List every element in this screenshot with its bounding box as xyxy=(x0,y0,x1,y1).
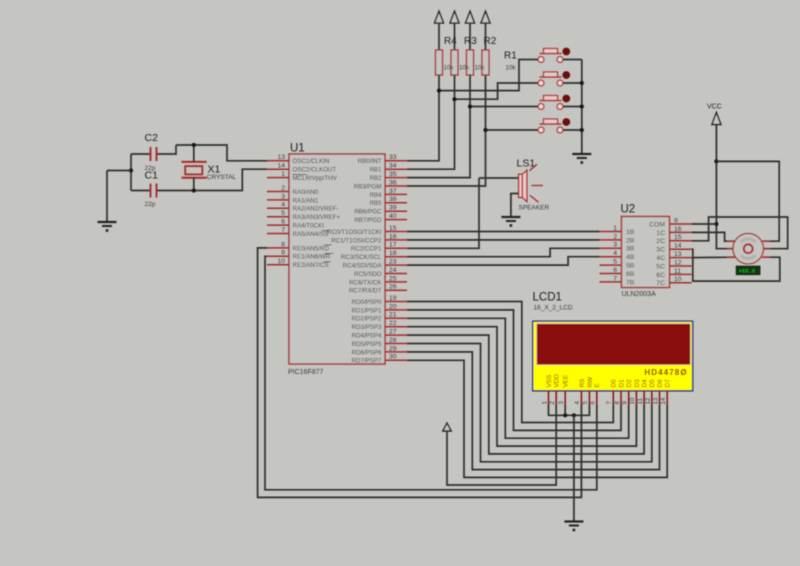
LCD pin numbers xyxy=(541,397,667,404)
svg-text:6C: 6C xyxy=(656,272,665,279)
wire R1 column to RB3 xyxy=(407,75,486,186)
svg-text:VSS: VSS xyxy=(546,375,553,388)
wire VEE to bus xyxy=(564,405,566,416)
svg-text:5: 5 xyxy=(582,401,589,405)
LCD1 screen xyxy=(537,324,691,365)
ground speaker xyxy=(501,217,520,227)
svg-text:ULN2003A: ULN2003A xyxy=(622,291,657,298)
svg-text:RB2: RB2 xyxy=(369,175,382,182)
svg-text:13: 13 xyxy=(674,251,682,258)
svg-text:18: 18 xyxy=(389,250,397,257)
wire RD0 to LCD D0 xyxy=(407,302,613,423)
svg-text:38: 38 xyxy=(389,196,397,203)
junction R4 tap xyxy=(437,89,441,93)
svg-text:14: 14 xyxy=(277,163,285,170)
svg-text:30: 30 xyxy=(389,354,397,361)
push button SW2 xyxy=(538,72,570,86)
wire power to R3 xyxy=(454,23,456,50)
svg-text:LS1: LS1 xyxy=(517,158,536,170)
push button SW4 xyxy=(538,119,570,133)
svg-text:4B: 4B xyxy=(626,254,635,261)
svg-text:6B: 6B xyxy=(626,271,635,278)
svg-text:14: 14 xyxy=(674,243,682,250)
svg-text:16: 16 xyxy=(389,233,397,240)
svg-text:4: 4 xyxy=(613,250,617,257)
svg-text:D1: D1 xyxy=(618,379,625,388)
svg-text:RC0/T1OSO/T1CKI: RC0/T1OSO/T1CKI xyxy=(327,229,382,236)
wire R2 column to RB2 xyxy=(407,75,470,178)
svg-text:10k: 10k xyxy=(475,65,486,72)
wire crystal bottom xyxy=(193,178,195,191)
U2 right pin numbers and names xyxy=(649,217,682,287)
svg-text:5: 5 xyxy=(281,210,285,217)
wire left rail xyxy=(130,154,132,191)
wire C2 row xyxy=(131,153,151,155)
wire RE1 to LCD E xyxy=(265,256,597,490)
svg-text:RD3/PSP3: RD3/PSP3 xyxy=(352,324,382,331)
speaker LS1 xyxy=(519,164,543,202)
wire tap to button 3 xyxy=(470,106,538,108)
svg-text:RC7/RX/DT: RC7/RX/DT xyxy=(349,288,382,295)
svg-text:39: 39 xyxy=(389,205,397,212)
svg-text:U1: U1 xyxy=(290,143,305,155)
wire RC3 to 3B xyxy=(407,248,600,256)
wire RE0 to LCD RS xyxy=(258,248,582,498)
svg-text:7: 7 xyxy=(613,275,617,282)
junction rail b3 xyxy=(580,104,584,108)
LCD pin stubs xyxy=(549,390,668,404)
svg-text:15: 15 xyxy=(389,225,397,232)
svg-text:RD7/PSP7: RD7/PSP7 xyxy=(352,358,382,365)
junction crystal top xyxy=(192,143,196,147)
svg-text:E: E xyxy=(594,383,601,387)
LCD1 body xyxy=(533,321,693,391)
resistor R1 10k xyxy=(482,50,489,75)
svg-text:RC1/T1OSI/CCP2: RC1/T1OSI/CCP2 xyxy=(331,237,382,244)
svg-text:LCD1: LCD1 xyxy=(533,292,562,304)
svg-text:D5: D5 xyxy=(649,379,656,388)
wire OSC1 top run xyxy=(176,145,267,161)
svg-text:1: 1 xyxy=(281,171,285,178)
svg-text:5C: 5C xyxy=(656,263,665,270)
svg-text:5B: 5B xyxy=(626,263,635,270)
U2 right pins xyxy=(670,224,692,283)
svg-text:RE1/AN6/WR: RE1/AN6/WR xyxy=(293,254,331,261)
U1 left pin numbers xyxy=(277,154,285,265)
wire RD5 to LCD D5 xyxy=(407,344,652,462)
svg-text:RA1/AN1: RA1/AN1 xyxy=(293,197,319,204)
svg-text:RW: RW xyxy=(587,376,594,387)
svg-text:D6: D6 xyxy=(657,379,664,388)
wire VCC loop to motor upper right xyxy=(716,161,779,241)
junction rail b2 xyxy=(580,81,584,85)
svg-text:28: 28 xyxy=(389,337,397,344)
motor rpm display xyxy=(736,266,760,274)
op-amp U1 PIC16F877 body xyxy=(289,154,385,364)
svg-text:6: 6 xyxy=(590,401,597,405)
overline marks xyxy=(293,175,334,262)
svg-text:4: 4 xyxy=(281,202,285,209)
motor stepper xyxy=(727,234,770,264)
svg-text:2: 2 xyxy=(613,233,617,240)
wire SW2 to rail xyxy=(563,82,582,84)
wire power to R4 xyxy=(438,23,440,50)
svg-text:12: 12 xyxy=(645,397,652,404)
svg-text:6: 6 xyxy=(613,267,617,274)
svg-text:RB5: RB5 xyxy=(369,200,382,207)
svg-text:RC5/SDO: RC5/SDO xyxy=(354,271,382,278)
svg-text:2: 2 xyxy=(549,401,556,405)
svg-text:MCLR/Vpp/THV: MCLR/Vpp/THV xyxy=(293,175,338,182)
svg-text:1: 1 xyxy=(613,225,617,232)
svg-text:HD4478Ø: HD4478Ø xyxy=(644,368,687,377)
svg-text:4: 4 xyxy=(574,401,581,405)
svg-text:RB1: RB1 xyxy=(369,167,382,174)
svg-text:2B: 2B xyxy=(626,237,635,244)
wire speaker pin1 xyxy=(479,177,519,179)
svg-text:R2: R2 xyxy=(484,36,497,47)
svg-text:22p: 22p xyxy=(145,201,156,208)
svg-text:10: 10 xyxy=(277,258,285,265)
junction rail b4 xyxy=(580,128,584,132)
power VCC xyxy=(712,113,721,125)
svg-text:D0: D0 xyxy=(611,379,618,388)
svg-text:10: 10 xyxy=(674,276,682,283)
svg-text:VDD: VDD xyxy=(554,374,561,388)
svg-text:36: 36 xyxy=(389,179,397,186)
resistor R2 10k xyxy=(467,50,474,75)
svg-text:3B: 3B xyxy=(626,246,635,253)
push button SW1 xyxy=(538,48,570,62)
wire power to R2 xyxy=(469,23,471,50)
wire RC4 to 4B xyxy=(407,257,600,265)
svg-text:RB7/PGD: RB7/PGD xyxy=(354,217,382,224)
svg-text:23: 23 xyxy=(389,259,397,266)
wire RD2 to LCD D2 xyxy=(407,318,629,438)
ground LCD xyxy=(564,522,583,532)
svg-text:11: 11 xyxy=(674,268,681,275)
svg-text:21: 21 xyxy=(389,312,397,319)
svg-text:RA0/AN0: RA0/AN0 xyxy=(293,189,319,196)
svg-text:10k: 10k xyxy=(459,65,470,72)
wire R4 column to RB0 xyxy=(407,75,439,161)
power arrow R2 xyxy=(466,11,475,23)
wire SW1 to rail xyxy=(563,59,582,61)
junction crystal bottom xyxy=(192,188,196,192)
svg-text:RD6/PSP6: RD6/PSP6 xyxy=(352,349,382,356)
svg-text:RA5/AN4/SS: RA5/AN4/SS xyxy=(293,231,329,238)
wire tap to button 4 xyxy=(486,129,539,131)
junction R3 tap xyxy=(452,97,456,101)
svg-text:OSC2/CLKOUT: OSC2/CLKOUT xyxy=(293,167,337,174)
U1 left pins xyxy=(267,161,289,265)
svg-text:RD2/PSP2: RD2/PSP2 xyxy=(352,316,382,323)
junction ground bus xyxy=(572,413,576,417)
U1 right pin numbers xyxy=(389,154,397,361)
wire tap to button 2 xyxy=(455,83,539,99)
wire tap to button 1 xyxy=(439,60,538,91)
wire 2C to motor right center xyxy=(692,217,788,249)
resistor R4 10k xyxy=(436,50,443,75)
svg-text:RA4/T0CKI: RA4/T0CKI xyxy=(293,223,325,230)
svg-text:13: 13 xyxy=(652,397,659,404)
wire speaker to RC2 xyxy=(407,178,479,248)
wire RC0 to 1B xyxy=(407,231,600,233)
svg-text:3: 3 xyxy=(613,242,617,249)
svg-text:VEE: VEE xyxy=(563,375,570,388)
svg-text:C1: C1 xyxy=(145,170,159,182)
wire to ground xyxy=(107,170,131,172)
svg-text:27: 27 xyxy=(389,329,397,336)
svg-text:37: 37 xyxy=(389,188,397,195)
svg-text:CRYSTAL: CRYSTAL xyxy=(207,174,237,181)
svg-text:35: 35 xyxy=(389,171,397,178)
junction VCC COM xyxy=(714,222,718,226)
U2 left pin numbers and names xyxy=(613,225,635,286)
capacitor C2 xyxy=(151,147,157,161)
svg-text:U2: U2 xyxy=(621,204,636,216)
wire 3C to motor lower right xyxy=(692,249,780,281)
svg-text:34: 34 xyxy=(389,163,397,170)
svg-text:7B: 7B xyxy=(626,279,635,286)
wire RD6 to LCD D6 xyxy=(407,352,660,470)
wire C1 row xyxy=(131,190,151,192)
svg-text:24: 24 xyxy=(389,267,397,274)
svg-text:9: 9 xyxy=(674,217,678,224)
wire speaker pin2 to ground xyxy=(511,194,519,218)
power arrow R1 xyxy=(481,11,490,23)
svg-text:4C: 4C xyxy=(656,255,665,262)
svg-text:12: 12 xyxy=(674,259,682,266)
svg-text:3: 3 xyxy=(558,401,565,405)
svg-text:RC6/TX/CK: RC6/TX/CK xyxy=(349,279,382,286)
wire 4C to motor lower left xyxy=(692,256,735,258)
svg-text:9: 9 xyxy=(281,250,285,257)
svg-text:PIC16F877: PIC16F877 xyxy=(288,369,324,376)
svg-text:RA3/AN3/VREF+: RA3/AN3/VREF+ xyxy=(293,214,341,221)
svg-text:8: 8 xyxy=(614,401,621,405)
power arrow R4 xyxy=(435,11,444,23)
svg-text:16_X_2_LCD: 16_X_2_LCD xyxy=(534,305,573,312)
svg-text:9: 9 xyxy=(622,401,629,405)
svg-text:10: 10 xyxy=(629,397,636,404)
svg-text:RA2/AN2/VREF-: RA2/AN2/VREF- xyxy=(293,206,339,213)
svg-text:3C: 3C xyxy=(656,247,665,254)
svg-text:RC4/SDI/SDA: RC4/SDI/SDA xyxy=(343,263,383,270)
wire RD7 to LCD D7 xyxy=(407,360,667,477)
svg-text:25: 25 xyxy=(389,275,397,282)
junction left rail xyxy=(129,168,133,172)
wire SW3 to rail xyxy=(563,106,582,108)
svg-text:1B: 1B xyxy=(626,229,635,236)
power arrow VDD xyxy=(443,423,451,431)
wire button rail xyxy=(581,60,583,155)
junction R1 tap xyxy=(483,128,487,132)
wire COM to VCC xyxy=(692,223,717,225)
wire RC1 to 2B xyxy=(407,239,600,241)
svg-text:29: 29 xyxy=(389,345,397,352)
svg-text:RB4: RB4 xyxy=(369,192,382,199)
svg-text:2: 2 xyxy=(281,185,285,192)
U1 left pin names xyxy=(293,158,341,269)
U2 left pins xyxy=(600,232,622,282)
wire RD4 to LCD D4 xyxy=(407,335,644,454)
svg-text:D3: D3 xyxy=(634,379,641,388)
capacitor C1 xyxy=(151,184,157,198)
svg-text:R3: R3 xyxy=(464,36,477,47)
svg-text:RB3/PGM: RB3/PGM xyxy=(354,183,382,190)
svg-text:RC2/CCP1: RC2/CCP1 xyxy=(351,246,382,253)
svg-text:D2: D2 xyxy=(626,379,633,388)
wire VDD power xyxy=(447,405,556,486)
svg-text:3: 3 xyxy=(281,193,285,200)
svg-text:D7: D7 xyxy=(665,379,672,388)
svg-text:VCC: VCC xyxy=(707,104,722,111)
svg-text:RS: RS xyxy=(579,379,586,388)
svg-text:RB0/INT: RB0/INT xyxy=(358,158,382,165)
svg-text:33: 33 xyxy=(389,154,397,161)
svg-text:C2: C2 xyxy=(145,132,159,144)
svg-text:RE0/AN5/RD: RE0/AN5/RD xyxy=(293,245,330,252)
LCD pin labels xyxy=(546,374,672,388)
svg-text:RB6/PGC: RB6/PGC xyxy=(354,209,382,216)
wire 1C to motor upper left xyxy=(692,232,735,241)
svg-text:R4: R4 xyxy=(444,36,457,47)
U1 right pin names xyxy=(327,158,382,365)
wire RD3 to LCD D3 xyxy=(407,327,636,446)
svg-text:20: 20 xyxy=(389,303,397,310)
svg-text:19: 19 xyxy=(389,295,397,302)
wire crystal top xyxy=(193,145,195,162)
wire R3 column to RB1 xyxy=(407,75,455,169)
svg-text:16: 16 xyxy=(674,226,682,233)
junction VCC upper xyxy=(714,159,718,163)
crystal X1 xyxy=(182,162,207,178)
wire RD1 to LCD D1 xyxy=(407,310,621,431)
wire SW4 to rail xyxy=(563,129,582,131)
wire bus to ground xyxy=(573,415,575,521)
svg-text:8: 8 xyxy=(281,241,285,248)
resistor R3 10k xyxy=(451,50,458,75)
svg-text:RD5/PSP5: RD5/PSP5 xyxy=(352,341,382,348)
svg-text:13: 13 xyxy=(277,154,285,161)
svg-text:10k: 10k xyxy=(506,64,517,71)
svg-text:22: 22 xyxy=(389,320,397,327)
svg-text:RD0/PSP0: RD0/PSP0 xyxy=(352,299,382,306)
svg-text:2C: 2C xyxy=(656,238,665,245)
svg-text:7C: 7C xyxy=(656,280,665,287)
svg-text:11: 11 xyxy=(637,398,644,405)
svg-text:RC3/SCK/SCL: RC3/SCK/SCL xyxy=(341,254,382,261)
svg-text:+88.8: +88.8 xyxy=(739,268,756,275)
svg-text:6: 6 xyxy=(281,219,285,226)
wire VSS-RW ground bus xyxy=(549,405,590,416)
svg-text:5: 5 xyxy=(613,259,617,266)
svg-text:R1: R1 xyxy=(504,51,517,62)
svg-text:1C: 1C xyxy=(656,230,665,237)
wire ground drop xyxy=(106,171,108,223)
svg-text:1: 1 xyxy=(541,401,548,405)
U1 right pins xyxy=(385,161,407,360)
wire VCC rail to motor center xyxy=(716,125,733,249)
svg-text:SPEAKER: SPEAKER xyxy=(519,205,550,212)
svg-text:10k: 10k xyxy=(444,65,455,72)
svg-text:COM: COM xyxy=(649,221,665,228)
op-amp U2 ULN2003A body xyxy=(622,217,670,288)
svg-text:RE2/AN7/CS: RE2/AN7/CS xyxy=(293,262,329,269)
svg-text:7: 7 xyxy=(281,227,285,234)
svg-text:40: 40 xyxy=(389,213,397,220)
svg-text:D4: D4 xyxy=(642,379,649,388)
junction R2 tap xyxy=(468,104,472,108)
svg-text:17: 17 xyxy=(389,242,397,249)
svg-text:RD4/PSP4: RD4/PSP4 xyxy=(352,333,382,340)
push button SW3 xyxy=(538,95,570,109)
junction VEE xyxy=(563,413,567,417)
svg-text:RD1/PSP1: RD1/PSP1 xyxy=(352,307,382,314)
svg-text:14: 14 xyxy=(660,397,667,404)
wire power to R1 xyxy=(485,23,487,50)
svg-text:7: 7 xyxy=(606,401,613,405)
ground crystal xyxy=(98,222,117,232)
svg-text:15: 15 xyxy=(674,234,682,241)
ground buttons xyxy=(572,154,591,164)
power arrow R3 xyxy=(450,11,459,23)
svg-text:26: 26 xyxy=(389,284,397,291)
svg-text:OSC1/CLKIN: OSC1/CLKIN xyxy=(293,158,330,165)
